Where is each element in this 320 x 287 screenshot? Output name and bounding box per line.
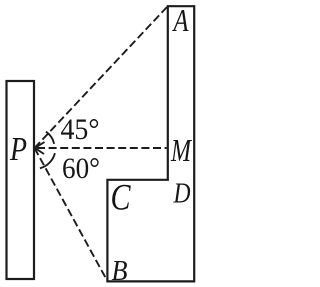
wire PB dashed (35, 148, 107, 280)
svg-text:P: P (9, 131, 27, 168)
wire PA dashed (35, 7, 168, 148)
svg-text:C: C (111, 178, 132, 219)
building outline (107, 6, 194, 281)
arrowhead at P (35, 142, 45, 154)
wire PM dashed (37, 147, 167, 149)
45 degree arc (46, 132, 54, 144)
svg-text:60°: 60° (62, 152, 100, 185)
left pole rectangle (7, 81, 35, 279)
svg-text:B: B (112, 255, 128, 287)
60 degree arc (40, 153, 55, 168)
svg-text:45°: 45° (61, 113, 100, 146)
svg-text:D: D (173, 178, 191, 210)
svg-text:M: M (170, 132, 193, 168)
svg-text:A: A (172, 2, 189, 38)
